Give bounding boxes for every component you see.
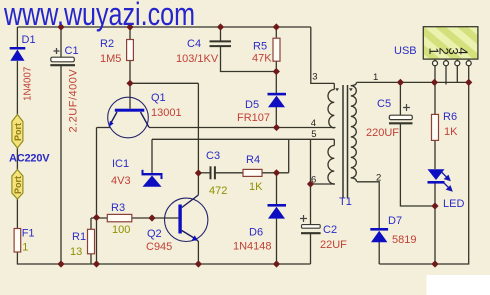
svg-text:100: 100	[112, 224, 130, 236]
svg-text:F1: F1	[22, 228, 35, 240]
svg-text:C945: C945	[146, 241, 172, 253]
svg-text:FR107: FR107	[237, 112, 270, 124]
svg-text:5819: 5819	[392, 234, 416, 246]
svg-text:4: 4	[456, 48, 471, 55]
svg-text:D7: D7	[388, 215, 402, 227]
svg-text:C2: C2	[323, 224, 337, 236]
svg-text:R6: R6	[443, 111, 457, 123]
svg-text:R5: R5	[253, 41, 267, 53]
svg-text:Q2: Q2	[147, 228, 162, 240]
svg-text:4: 4	[311, 118, 316, 129]
svg-text:Q1: Q1	[151, 92, 166, 104]
svg-text:C5: C5	[377, 98, 391, 110]
svg-text:R3: R3	[111, 202, 125, 214]
svg-text:C3: C3	[206, 150, 220, 162]
svg-text:www.wuyazi.com: www.wuyazi.com	[3, 0, 195, 32]
svg-text:R1: R1	[72, 231, 86, 243]
svg-text:C1: C1	[65, 45, 79, 57]
svg-text:1: 1	[373, 72, 378, 83]
svg-text:Port: Port	[13, 123, 23, 141]
svg-text:IC1: IC1	[112, 158, 129, 170]
svg-text:R2: R2	[100, 38, 114, 50]
svg-text:3: 3	[312, 72, 317, 83]
svg-text:22UF: 22UF	[320, 239, 347, 251]
svg-text:220UF: 220UF	[366, 127, 399, 139]
svg-text:1: 1	[22, 242, 28, 254]
svg-text:LED: LED	[443, 198, 464, 210]
svg-text:1N4148: 1N4148	[233, 241, 272, 253]
svg-text:D6: D6	[249, 227, 263, 239]
svg-text:103/1KV: 103/1KV	[176, 53, 219, 65]
svg-text:1N4007: 1N4007	[23, 67, 34, 101]
svg-text:T1: T1	[339, 196, 352, 208]
svg-text:D1: D1	[22, 34, 36, 46]
svg-text:1K: 1K	[249, 181, 263, 193]
svg-text:AC220V: AC220V	[9, 153, 50, 165]
svg-text:5: 5	[311, 129, 316, 140]
svg-text:Port: Port	[13, 176, 23, 194]
svg-text:47K: 47K	[252, 53, 272, 65]
svg-text:2.2UF/400V: 2.2UF/400V	[68, 69, 80, 133]
svg-text:13: 13	[70, 246, 82, 258]
svg-text:13001: 13001	[151, 107, 182, 119]
svg-text:D5: D5	[245, 99, 259, 111]
svg-text:1K: 1K	[444, 126, 458, 138]
svg-text:4V3: 4V3	[111, 175, 131, 187]
svg-text:472: 472	[209, 185, 227, 197]
svg-text:USB: USB	[394, 45, 417, 57]
svg-text:C4: C4	[187, 38, 201, 50]
svg-text:1M5: 1M5	[100, 53, 121, 65]
svg-text:R4: R4	[246, 154, 260, 166]
svg-text:2: 2	[376, 173, 381, 184]
svg-text:6: 6	[311, 175, 316, 186]
